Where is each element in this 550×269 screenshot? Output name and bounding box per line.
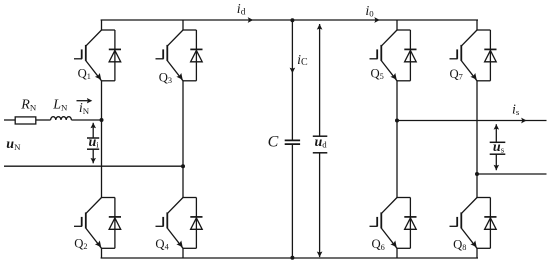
diode across Q4: [190, 198, 202, 249]
wire: phase leg Q7/Q8 lower stub: [476, 248, 478, 258]
voltage arrow ud: up arrowhead: [317, 24, 323, 30]
current arrow iN: [77, 100, 88, 102]
wire: Q2 collector elbow: [102, 197, 115, 199]
node: bridge input node (junction dot): [100, 118, 104, 122]
diode across Q1: [109, 30, 121, 81]
transistor Q6 (IGBT): [370, 198, 398, 249]
wire: Q7 emitter elbow: [477, 80, 490, 82]
current arrow i0 on top rail: [374, 17, 380, 23]
node: Q5/Q6 midpoint junction: [395, 119, 399, 123]
wire: phase leg Q3/Q4 midsection: [182, 81, 184, 198]
wire: output lower lead: [477, 173, 547, 175]
wire: phase leg Q1/Q2 upper stub: [101, 20, 103, 30]
wire: AC source lower lead: [4, 165, 183, 167]
voltage arrow ui: lower shaft: [92, 149, 94, 163]
wire: Q3 emitter elbow: [183, 80, 196, 82]
transistor Q1 (IGBT): [74, 30, 102, 81]
wire: Q4 emitter elbow: [183, 247, 196, 249]
voltage arrow ud: down arrowhead: [317, 252, 323, 258]
voltage arrow ud: lower shaft: [319, 153, 321, 257]
wire: Q3 collector elbow: [183, 29, 196, 31]
svg-text:i0: i0: [365, 4, 374, 19]
wire: Q5 collector elbow: [397, 29, 410, 31]
transistor Q7 (IGBT): [450, 30, 478, 81]
svg-text:Q5: Q5: [371, 66, 384, 81]
svg-text:Q2: Q2: [74, 237, 87, 252]
wire: capacitor branch upper: [291, 20, 293, 140]
svg-text:id: id: [237, 2, 246, 17]
current arrow id on top rail: [248, 17, 254, 23]
svg-text:Q8: Q8: [453, 237, 466, 252]
wire: Q1 emitter elbow: [102, 80, 115, 82]
svg-text:uN: uN: [6, 137, 21, 152]
diode across Q2: [109, 198, 121, 249]
wire: phase leg Q5/Q6 midsection: [396, 81, 398, 198]
voltage arrow us: upper shaft: [495, 124, 497, 142]
voltage arrow ui: down arrowhead: [91, 158, 97, 163]
wire: phase leg Q1/Q2 midsection: [101, 81, 103, 198]
wire: Q7 collector elbow: [477, 29, 490, 31]
diode across Q6: [404, 198, 416, 249]
diode across Q8: [484, 198, 496, 249]
svg-text:ui: ui: [89, 135, 100, 150]
wire: Q6 collector elbow: [397, 197, 410, 199]
wire: phase leg Q1/Q2 lower stub: [101, 248, 103, 258]
svg-text:iC: iC: [297, 53, 308, 68]
svg-text:iN: iN: [79, 101, 90, 116]
diode across Q7: [484, 30, 496, 81]
transistor Q2 (IGBT): [74, 198, 102, 249]
wire: phase leg Q7/Q8 midsection: [476, 81, 478, 198]
wire: Q6 emitter elbow: [397, 247, 410, 249]
capacitor C plates: [285, 140, 300, 144]
svg-text:RN: RN: [20, 98, 37, 113]
svg-text:LN: LN: [52, 98, 68, 113]
wire: Q8 collector elbow: [477, 197, 490, 199]
transistor Q8 (IGBT): [450, 198, 478, 249]
wire: phase leg Q3/Q4 upper stub: [182, 20, 184, 30]
svg-text:Q4: Q4: [155, 237, 169, 252]
inductor LN: [51, 117, 72, 120]
voltage arrow us: lower tick: [490, 153, 506, 155]
wire: top DC rail: [101, 19, 478, 21]
node: top rail / capacitor junction: [290, 18, 294, 22]
diode across Q5: [404, 30, 416, 81]
node: bottom rail / capacitor junction: [290, 256, 294, 260]
wire: Q2 emitter elbow: [102, 247, 115, 249]
resistor RN: [15, 117, 36, 124]
svg-text:Q3: Q3: [159, 70, 172, 85]
voltage arrow ui: upper shaft: [92, 123, 94, 138]
wire: Q5 emitter elbow: [397, 80, 410, 82]
wire: phase leg Q5/Q6 lower stub: [396, 248, 398, 258]
wire: capacitor branch lower: [291, 144, 293, 258]
transistor Q4 (IGBT): [156, 198, 184, 249]
voltage arrow ui: lower tick: [87, 148, 99, 150]
wire: Q4 collector elbow: [183, 197, 196, 199]
voltage arrow ui: upper tick: [87, 137, 99, 139]
wire: output upper lead: [397, 120, 547, 122]
current arrow is: [521, 118, 527, 124]
svg-text:Q7: Q7: [450, 67, 463, 82]
voltage arrow us: up arrowhead: [494, 124, 500, 129]
voltage arrow ud: upper shaft: [319, 24, 321, 136]
diode across Q3: [190, 30, 202, 81]
wire: phase leg Q3/Q4 lower stub: [182, 248, 184, 258]
wire: phase leg Q5/Q6 upper stub: [396, 20, 398, 30]
voltage arrow ui: up arrowhead: [91, 123, 97, 128]
voltage arrow us: down arrowhead: [494, 165, 500, 170]
wire: RN to LN: [36, 119, 51, 121]
svg-text:C: C: [268, 133, 279, 150]
transistor Q5 (IGBT): [370, 30, 398, 81]
node: lower bridge node Q3/Q4 (junction dot): [181, 164, 185, 168]
transistor Q3 (IGBT): [156, 30, 184, 81]
svg-text:Q1: Q1: [78, 67, 91, 82]
svg-text:ud: ud: [315, 135, 328, 150]
svg-text:is: is: [512, 102, 520, 117]
wire: AC source upper lead: [4, 119, 15, 121]
node: Q7/Q8 midpoint junction: [475, 172, 479, 176]
voltage arrow us: lower shaft: [495, 154, 497, 170]
wire: phase leg Q7/Q8 upper stub: [476, 20, 478, 30]
voltage arrow ud: lower tick: [313, 152, 328, 154]
current arrow iC: [290, 68, 296, 74]
wire: bottom DC rail: [101, 257, 478, 259]
wire: Q1 collector elbow: [102, 29, 115, 31]
wire: Q8 emitter elbow: [477, 247, 490, 249]
voltage arrow us: upper tick: [490, 141, 506, 143]
svg-text:Q6: Q6: [372, 237, 385, 252]
voltage arrow ud: upper tick: [313, 135, 328, 137]
wire: LN to bridge input node: [71, 119, 101, 121]
